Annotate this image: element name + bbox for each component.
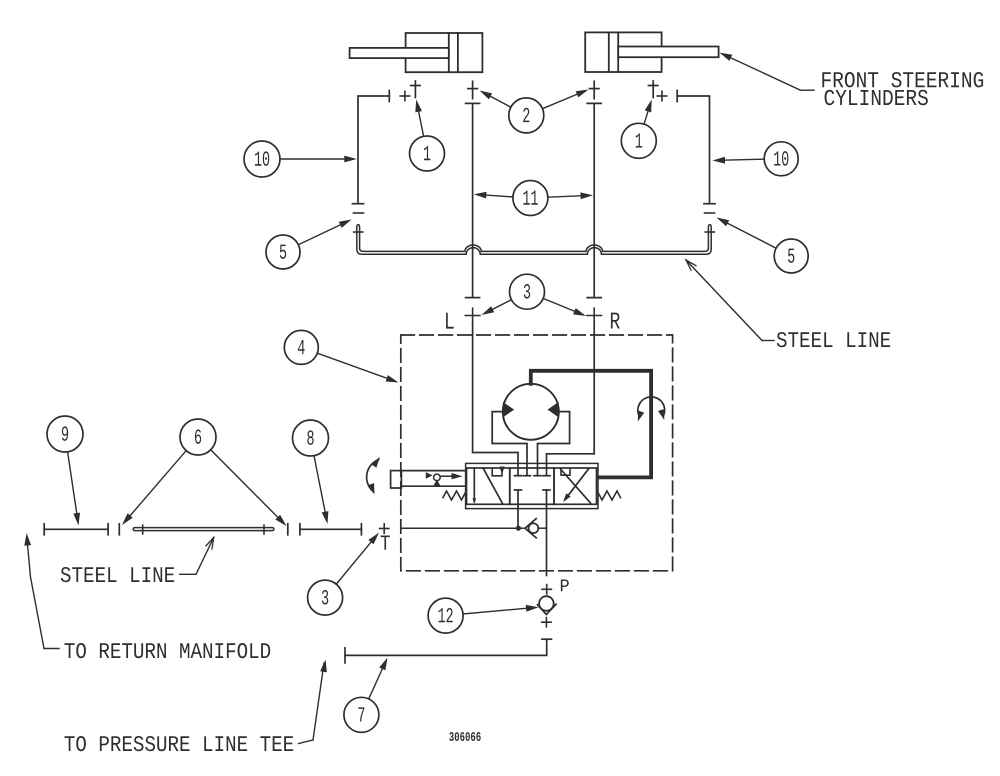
steering input shaft with pilot actuator symbols <box>391 471 466 488</box>
gerotor left port line to valve <box>492 412 527 475</box>
return steel line (item 6, tube with crossbars) <box>119 524 287 535</box>
pressure supply hose (item 7) elbow to the left <box>345 639 551 663</box>
right center hose (item 11) vertical line with end bars <box>587 103 601 297</box>
label STEEL LINE (right) with leader to steel line <box>686 260 890 347</box>
label R <box>611 313 620 329</box>
rotation arc arrow on input shaft <box>367 457 380 495</box>
label L <box>446 313 454 329</box>
valve right section (crossed spool position with arrow and port box) <box>561 469 591 504</box>
right inner port cross <box>590 81 599 98</box>
mechanical feedback link (bold line) from gerotor to valve <box>531 371 651 478</box>
return hose (item 9) <box>44 524 108 535</box>
junction node at tank line <box>516 526 521 531</box>
rotation arc arrow on feedback line <box>638 397 665 422</box>
balloon 7 pointing to pressure hose <box>344 658 388 733</box>
left steel line top fitting (tube end with crossbar) <box>354 225 363 249</box>
valve center section top port tees <box>515 475 551 477</box>
balloon 2 pointing to the two inner cylinder ports <box>480 90 589 133</box>
valve bottom ports: tank stub and pressure stub lines <box>515 490 551 576</box>
label TO PRESSURE LINE TEE with leader <box>65 660 327 752</box>
balloon 11 pointing to both center hoses <box>474 181 593 216</box>
label FRONT STEERING CYLINDERS with leader arrow to right cylinder rod <box>720 53 984 106</box>
T port cross fitting <box>380 524 389 533</box>
balloon 8 pointing to return hose <box>293 420 329 524</box>
balloon 1 (left) pointing to left cylinder port <box>410 100 445 172</box>
label P <box>561 580 569 592</box>
left cylinder rod-end port fittings (tick, cross, port cross) <box>389 81 420 102</box>
valve R port cross <box>587 308 602 323</box>
balloon 6 pointing to both ends of return steel line <box>122 419 287 526</box>
label TO RETURN MANIFOLD with curved leader <box>24 533 270 658</box>
hydraulic cylinder (left front steering cylinder) <box>350 33 483 72</box>
valve left section (spool position with arrows and port box) <box>472 467 504 504</box>
valve left return spring <box>443 491 466 500</box>
balloon 3 (top) pointing to L and R port crosses <box>482 274 587 316</box>
balloon 10 (right) pointing to right outer hose <box>713 142 799 176</box>
steering control valve body (3-section envelope) <box>466 463 598 508</box>
balloon 1 (right) pointing to right cylinder port <box>621 100 656 159</box>
balloon 12 pointing to inlet check valve <box>428 598 538 633</box>
balloon 5 (left) pointing to hose/steel-line joint <box>266 220 352 270</box>
right steel line top fitting (tube end with crossbar) <box>705 225 714 249</box>
steel line across bottom (double line with pipe jumps) <box>357 245 711 254</box>
return hose (item 8) <box>300 524 362 535</box>
left center hose (item 11) vertical line with end bars <box>466 103 480 297</box>
label T <box>381 535 390 549</box>
right outer hose (item 10) elbow down with end bar and gap dash <box>677 96 715 213</box>
L port line from cross to valve port <box>473 323 518 475</box>
balloon 4 pointing to dashed enclosure <box>284 330 398 382</box>
balloon 10 (left) pointing to left outer hose <box>244 141 357 177</box>
P port upper cross <box>542 585 551 594</box>
balloon 9 pointing to return hose <box>47 416 83 526</box>
dashed enclosure box of steering control unit (item 4) <box>401 335 673 571</box>
balloon 5 (right) pointing to hose/steel-line joint <box>717 218 809 274</box>
P port lower cross <box>542 618 551 627</box>
steering metering unit (gerotor) circle with inward triangles <box>503 384 559 440</box>
inlet check valve (item 12) <box>537 596 556 614</box>
gerotor right port line to valve <box>538 412 570 475</box>
right cylinder rod-end port fittings (port cross, cross, tick) <box>649 81 678 102</box>
left inner port cross <box>468 81 477 98</box>
valve right return spring <box>598 491 621 500</box>
internal check valve between tank line and pressure line <box>518 519 546 538</box>
drawing number 306066 <box>449 732 480 741</box>
tank line from T port to junction <box>401 527 519 529</box>
hydraulic cylinder (right front steering cylinder) <box>585 32 718 72</box>
R port line from cross to valve port <box>547 323 595 475</box>
valve L port cross <box>465 308 480 323</box>
balloon 3 (bottom) pointing to T port <box>308 533 379 616</box>
left outer hose (item 10) elbow down with end bar and gap dash <box>353 96 390 213</box>
label STEEL LINE (left) with leader <box>61 538 214 583</box>
